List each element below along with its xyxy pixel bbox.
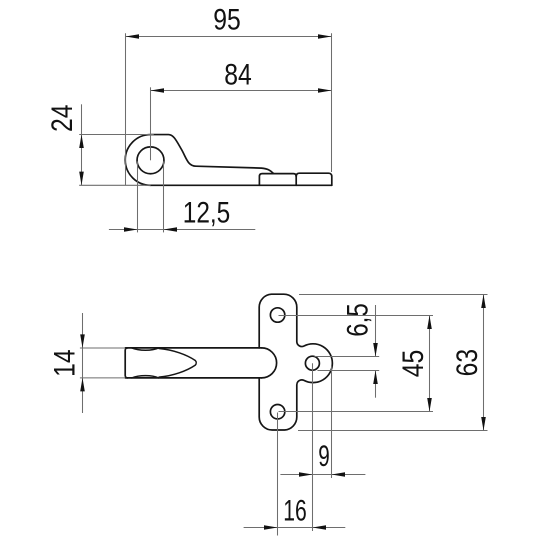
dimension line 6,5 upper tail — [375, 305, 377, 357]
eyelet hole circle — [137, 147, 164, 174]
bottom screw hole — [270, 405, 284, 419]
svg-text:12,5: 12,5 — [183, 196, 231, 229]
dimension line 95 — [126, 36, 332, 38]
arrow 84 right — [318, 88, 332, 93]
arrow 12,5 right (outside, points left) — [164, 227, 178, 232]
arm slot rounded cap inside plate — [262, 348, 277, 378]
dimension line 45 — [429, 316, 431, 412]
extension line middle hole bottom tangent (6,5) — [318, 370, 380, 372]
dimension line 12,5 left tail — [109, 229, 138, 231]
plate side-view bump 1 (body edge) — [259, 174, 296, 186]
svg-text:63: 63 — [451, 349, 484, 377]
arrow 12,5 left (outside, points right) — [124, 227, 138, 232]
extension line top hole center (45) — [279, 315, 434, 317]
arrow 63 top — [481, 295, 486, 309]
arm band bottom edge — [125, 377, 261, 379]
extension line middle hole center vertical (9/16) — [312, 363, 314, 531]
extension line lobe right tangent (9) — [331, 366, 333, 478]
dimension line 14 — [82, 313, 84, 413]
dimension line 24 — [81, 104, 83, 185]
dimension line 16 left tail — [244, 527, 278, 529]
dimension line 84 — [151, 90, 332, 92]
arrow 45 bottom — [427, 398, 432, 412]
arrow 16 left (outside, points right) — [264, 525, 278, 530]
dimension line 9 middle — [313, 474, 332, 476]
handle left end cap — [125, 348, 127, 378]
arrow 45 top — [427, 316, 432, 330]
svg-text:6,5: 6,5 — [342, 303, 375, 337]
arrow 16 right (outside, points left) — [313, 525, 327, 530]
arrow 63 bottom — [481, 417, 486, 431]
extension line hole left tangent (12,5) — [137, 161, 139, 232]
dimension line 9 right tail — [332, 474, 366, 476]
arrow 95 left — [126, 34, 140, 39]
svg-text:45: 45 — [397, 350, 430, 378]
dimension line 12,5 right tail — [164, 229, 256, 231]
svg-text:14: 14 — [49, 349, 82, 377]
dimension line 6,5 lower tail — [375, 371, 377, 398]
arrow 14 bottom (outside, points up) — [80, 378, 85, 392]
dimension line 16 right tail — [313, 527, 346, 529]
plate side-view divider line — [295, 175, 297, 186]
plate side-view bump 2 (lobe edge) — [296, 173, 332, 185]
extension line part bottom (24) — [79, 184, 150, 186]
extension line middle hole top tangent (6,5) — [315, 356, 380, 358]
extension line hole center (84) — [150, 87, 152, 160]
part bottom line (side view) — [151, 184, 332, 186]
dimension line 9 left part — [280, 474, 312, 476]
dimension line 16 middle — [278, 527, 313, 529]
arrow 24 bottom — [79, 172, 84, 186]
middle screw hole — [305, 356, 319, 370]
arrow 6,5 top (outside, points down) — [373, 343, 378, 357]
arrow 9 right (outside, points left) — [332, 472, 346, 477]
extension line bottom hole center (45) — [279, 411, 434, 413]
svg-text:9: 9 — [318, 440, 330, 473]
extension line left edge (95) — [125, 33, 127, 185]
svg-text:95: 95 — [213, 4, 241, 37]
arrow 84 left — [151, 88, 165, 93]
arrow 9 left (outside, points right) — [299, 472, 313, 477]
handle grip dip bottom — [132, 376, 159, 378]
handle grip dip top — [132, 348, 159, 350]
arrow 6,5 bottom (outside, points up) — [373, 371, 378, 385]
svg-text:84: 84 — [224, 59, 252, 92]
dimension line 63 — [483, 295, 485, 431]
boss outer circle left arc — [125, 135, 150, 186]
extension line arm top (14) — [80, 347, 125, 349]
arm top edge S-curve — [151, 135, 274, 174]
arrow 24 top — [79, 135, 84, 149]
arm band top edge — [125, 347, 261, 349]
extension line arm bottom (14) — [80, 377, 125, 379]
extension line bottom hole center vertical (16) — [277, 413, 279, 536]
top screw hole — [270, 308, 284, 322]
dimension line 12,5 middle — [138, 229, 164, 231]
arrow 14 top (outside, points down) — [80, 334, 85, 348]
handle pressed leaf shape — [159, 349, 196, 378]
svg-text:16: 16 — [283, 494, 307, 527]
extension line part top (24) — [79, 134, 154, 136]
svg-text:24: 24 — [46, 105, 79, 133]
arrow 95 right — [318, 34, 332, 39]
plate outline with rounded corners, lobe and slot gap on left edge — [259, 294, 332, 430]
extension line plate bottom (63) — [298, 430, 488, 432]
extension line hole right tangent (12,5) — [163, 161, 165, 232]
extension line right edge (95/84) — [331, 33, 333, 172]
extension line plate top (63) — [299, 294, 488, 296]
